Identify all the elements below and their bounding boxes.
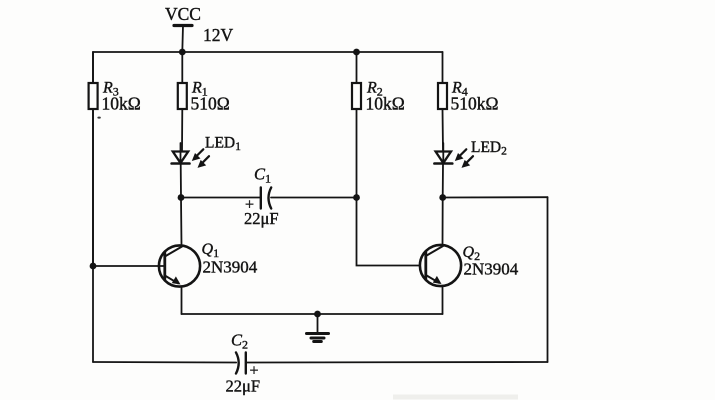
svg-text:10kΩ: 10kΩ bbox=[366, 94, 405, 114]
svg-text:2N3904: 2N3904 bbox=[203, 258, 258, 277]
svg-text:12V: 12V bbox=[203, 25, 234, 45]
wire bottom rail right segment bbox=[246, 361, 548, 364]
svg-text:LED2: LED2 bbox=[471, 139, 507, 158]
resistor R3 bbox=[89, 52, 141, 266]
transistor Q1 (2N3904 NPN) bbox=[159, 241, 258, 287]
wire Q1 collector lead bbox=[180, 198, 183, 246]
node ground junction bbox=[314, 311, 321, 318]
power symbol VCC bbox=[165, 4, 201, 52]
wire Q1 base lead bbox=[93, 265, 165, 267]
wire LED1 cathode to node bbox=[180, 164, 182, 198]
svg-text:22μF: 22μF bbox=[226, 377, 261, 396]
capacitor C2 bbox=[226, 331, 261, 396]
wire emitter rail bbox=[182, 313, 443, 315]
node R2 junction on top rail bbox=[353, 49, 360, 56]
wire Q2 collector lead bbox=[442, 198, 444, 246]
svg-text:VCC: VCC bbox=[165, 4, 201, 24]
wire Q1 emitter lead bbox=[181, 286, 183, 314]
transistor Q2 (2N3904 NPN) bbox=[420, 244, 519, 286]
resistor R4 bbox=[438, 52, 499, 151]
svg-text:10kΩ: 10kΩ bbox=[102, 94, 141, 114]
svg-text:510Ω: 510Ω bbox=[191, 94, 230, 114]
capacitor C1 bbox=[181, 165, 357, 229]
svg-text:LED1: LED1 bbox=[205, 135, 241, 154]
node C1 right / R2 bottom bbox=[353, 194, 360, 201]
LED LED1 (diode symbol with arrows) bbox=[172, 135, 242, 168]
node Q1 base on left rail bbox=[90, 263, 97, 270]
LED LED2 (diode symbol with arrows) bbox=[434, 139, 507, 168]
svg-text:2N3904: 2N3904 bbox=[464, 260, 519, 279]
wire node to right edge bbox=[443, 196, 548, 198]
svg-text:510kΩ: 510kΩ bbox=[451, 94, 499, 114]
wire Q2 emitter lead bbox=[442, 286, 444, 314]
wire C1 node down and right to Q2 base bbox=[357, 198, 420, 266]
wire left vertical (VCC rail to bottom-left corner) bbox=[92, 52, 94, 362]
wire top rail bbox=[93, 51, 443, 53]
node Q1 collector / C1 left bbox=[178, 194, 185, 201]
svg-text:C1: C1 bbox=[254, 165, 271, 186]
node Q2 collector / right branch bbox=[439, 194, 446, 201]
node VCC junction on top rail bbox=[179, 49, 186, 56]
resistor R2 bbox=[352, 52, 405, 198]
svg-text:C2: C2 bbox=[231, 331, 248, 352]
wire LED2 cathode to node bbox=[442, 164, 444, 198]
resistor R1 bbox=[178, 52, 230, 151]
wire right vertical bbox=[547, 197, 549, 362]
svg-text:22μF: 22μF bbox=[244, 209, 279, 228]
wire bottom rail left segment bbox=[93, 361, 236, 364]
ground bbox=[307, 314, 329, 342]
